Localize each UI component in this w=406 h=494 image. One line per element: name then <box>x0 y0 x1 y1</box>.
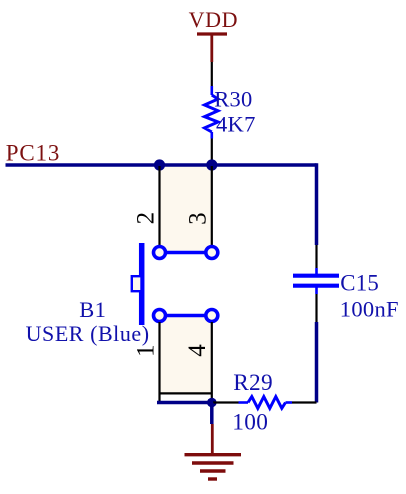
resistor R29 zigzag <box>248 397 286 409</box>
svg-text:B1: B1 <box>79 297 106 322</box>
button B1 pin 2 line <box>158 166 160 246</box>
ground bar 2 <box>192 461 234 464</box>
button B1 contact line bottom <box>160 314 212 318</box>
button B1 actuator cap <box>132 276 142 291</box>
wire capacitor lower lead (black) <box>315 294 317 322</box>
capacitor C15 bottom plate <box>293 284 339 288</box>
resistor R29 right lead (black) <box>292 401 317 403</box>
button B1 pin 3 line <box>211 166 213 246</box>
ground bar 4 <box>208 477 217 480</box>
capacitor C15 top stub <box>315 268 318 274</box>
svg-text:R29: R29 <box>233 370 273 396</box>
wire main horizontal PC13 net <box>6 163 317 167</box>
button B1 body fill bottom <box>160 315 211 393</box>
wire VDD stem (dark red) <box>210 34 213 62</box>
junction dot left <box>154 159 165 170</box>
resistor R30 bottom lead (black) <box>211 139 213 166</box>
wire right vertical lower (navy) <box>315 322 319 403</box>
svg-text:1: 1 <box>132 344 159 357</box>
junction dot right <box>206 159 217 170</box>
wire capacitor upper lead (black) <box>315 245 317 268</box>
svg-text:R30: R30 <box>214 86 252 111</box>
button B1 pin 4 circle <box>206 310 218 322</box>
svg-text:C15: C15 <box>340 270 379 295</box>
button B1 pin 1 circle <box>154 310 166 322</box>
wire ground stub (navy) <box>210 403 214 425</box>
button B1 body fill top <box>160 166 211 253</box>
svg-text:PC13: PC13 <box>6 140 60 165</box>
junction dot bottom <box>207 398 217 408</box>
ground bar 3 <box>200 469 226 472</box>
svg-text:100: 100 <box>232 410 268 436</box>
svg-text:VDD: VDD <box>189 7 238 32</box>
svg-text:2: 2 <box>133 212 160 225</box>
button B1 contact line top <box>160 251 212 255</box>
resistor R30 bottom lead (blue) <box>211 132 214 139</box>
svg-text:4: 4 <box>184 344 211 357</box>
resistor R29 left lead (blue) <box>239 401 249 404</box>
wire VDD stem (black) <box>211 62 213 86</box>
capacitor C15 top plate <box>293 274 339 278</box>
button B1 pin 1 line <box>158 322 160 403</box>
button B1 pin 2 circle <box>154 247 166 259</box>
svg-text:USER (Blue): USER (Blue) <box>26 321 150 346</box>
button B1 body bottom edge <box>160 392 212 394</box>
ground bar 1 <box>185 453 242 456</box>
button B1 pin 4 line <box>211 322 213 403</box>
wire right vertical (navy) <box>315 163 319 245</box>
svg-text:4K7: 4K7 <box>216 111 256 136</box>
wire bottom horizontal (navy) <box>157 401 213 405</box>
resistor R30 zigzag <box>205 95 219 132</box>
power symbol VDD bar <box>197 32 227 35</box>
resistor R29 left lead (black) <box>213 401 239 403</box>
resistor R29 right lead (blue) <box>286 401 293 404</box>
button B1 actuator bar <box>139 243 145 325</box>
svg-text:3: 3 <box>185 212 212 225</box>
button B1 pin 3 circle <box>206 247 218 259</box>
resistor R30 top lead <box>211 86 214 95</box>
wire ground stub (dark red) <box>211 424 214 454</box>
svg-text:100nF: 100nF <box>340 296 399 321</box>
capacitor C15 bottom stub <box>315 288 318 295</box>
